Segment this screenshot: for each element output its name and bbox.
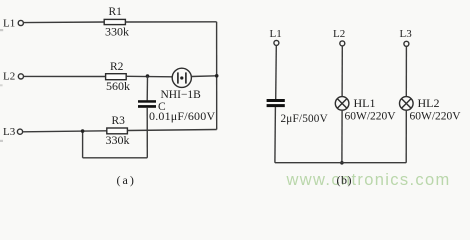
wire HL2 to bottom wire [405, 110, 407, 163]
svg-text:0.01μF/600V: 0.01μF/600V [149, 109, 215, 123]
capacitor C 0.01uF/600V [138, 100, 215, 123]
svg-text:60W/220V: 60W/220V [410, 111, 462, 123]
neon lamp U1 NHI-1B [161, 68, 202, 101]
wire L2 to R2 [24, 75, 106, 77]
svg-text:(a): (a) [117, 173, 136, 187]
node L2 terminal (b) [333, 28, 345, 46]
svg-text:NHI−1B: NHI−1B [161, 89, 202, 101]
node L2 terminal [3, 71, 24, 83]
svg-text:R3: R3 [112, 115, 126, 127]
svg-text:R2: R2 [110, 61, 124, 73]
svg-text:560k: 560k [106, 79, 130, 93]
wire bottom (b) [275, 162, 406, 164]
resistor R3 [106, 115, 130, 147]
svg-text:HL2: HL2 [418, 96, 440, 110]
svg-text:330k: 330k [105, 25, 129, 39]
svg-text:L3: L3 [3, 126, 16, 138]
wire bottom loop up to L3 junction [82, 131, 84, 158]
node L3 terminal (b) [400, 28, 413, 47]
junction dot node B [146, 74, 150, 78]
svg-text:2μF/500V: 2μF/500V [281, 113, 328, 125]
svg-text:330k: 330k [106, 133, 130, 147]
lamp HL2 [400, 96, 462, 122]
capacitor C2 2uF/500V [267, 99, 328, 125]
junction dot on node A [215, 74, 219, 78]
node L3 terminal [3, 126, 23, 138]
svg-text:(b): (b) [337, 173, 353, 187]
wire R2 to lamp [126, 75, 172, 78]
junction dot L3 node [81, 129, 85, 133]
wire R1 to right corner [125, 21, 216, 23]
wire capacitor down to bottom loop [146, 108, 148, 158]
svg-text:L2: L2 [3, 71, 15, 83]
wire L1 to R1 [24, 21, 105, 24]
wire L2 down to HL1 [341, 46, 343, 97]
node L1 terminal [3, 18, 23, 30]
wire lamp to node A [191, 75, 216, 78]
wire right vertical node A [216, 22, 218, 130]
svg-text:L3: L3 [400, 28, 413, 40]
lamp HL1 [335, 96, 396, 122]
wire capacitor to bottom wire (b) [274, 107, 277, 163]
wire L3 down to HL2 [405, 46, 407, 97]
wire L3 to R3 [23, 131, 107, 132]
svg-text:R1: R1 [109, 6, 123, 18]
resistor R2 [106, 61, 130, 93]
wire node B down to capacitor [146, 76, 148, 100]
svg-text:L1: L1 [270, 28, 282, 40]
svg-text:L1: L1 [3, 18, 15, 30]
wire R3 to node A corner [127, 130, 216, 131]
node L1 terminal (b) [270, 28, 282, 46]
svg-text:HL1: HL1 [354, 96, 376, 110]
resistor R1 [104, 6, 129, 39]
wire HL1 to bottom junction [341, 110, 343, 163]
junction dot bottom (b) [340, 161, 344, 165]
wire bottom loop horizontal [83, 157, 148, 159]
svg-text:www.cntronics.com: www.cntronics.com [286, 171, 451, 189]
wire L1 down to capacitor (b) [275, 46, 278, 100]
svg-text:60W/220V: 60W/220V [345, 111, 397, 123]
svg-text:L2: L2 [333, 28, 345, 40]
